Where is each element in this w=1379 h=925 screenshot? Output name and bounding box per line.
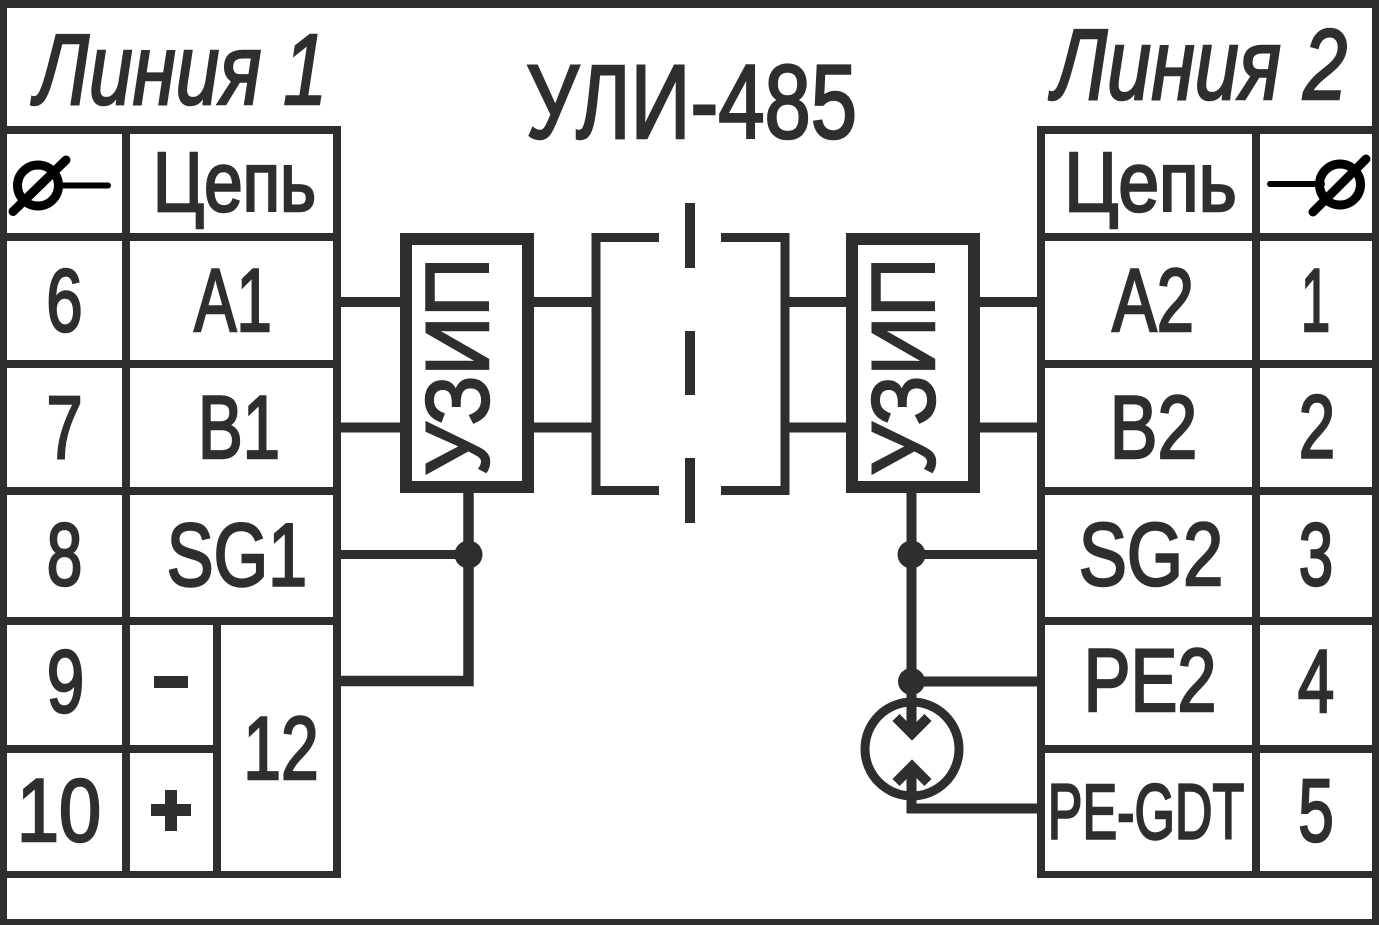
wire УЗИП to A2 bbox=[977, 297, 1041, 307]
surge protector УЗИП right box bbox=[852, 239, 974, 487]
gas discharge tube up arrowhead bbox=[896, 767, 928, 783]
svg-text:A1: A1 bbox=[194, 252, 272, 351]
left terminal table grid bbox=[0, 126, 341, 878]
junction dot right PE2 bbox=[898, 668, 925, 695]
wire break to УЗИП right (B) bbox=[785, 423, 849, 433]
svg-text:4: 4 bbox=[1298, 631, 1334, 731]
svg-text:5: 5 bbox=[1298, 762, 1334, 861]
svg-text:10: 10 bbox=[17, 760, 101, 860]
wire A1 to УЗИП bbox=[337, 297, 403, 307]
wire УЗИП left ground pin down to 12 wire bbox=[337, 490, 469, 681]
wire break to УЗИП right (A) bbox=[785, 297, 849, 307]
svg-text:B1: B1 bbox=[198, 378, 280, 477]
svg-text:2: 2 bbox=[1299, 377, 1335, 477]
right terminal table grid bbox=[1037, 126, 1379, 878]
svg-text:SG2: SG2 bbox=[1079, 506, 1224, 605]
wire УЗИП right ground pin down to arrow bbox=[907, 490, 917, 735]
svg-text:Цепь: Цепь bbox=[153, 136, 316, 230]
wire B1 to УЗИП bbox=[337, 423, 403, 433]
junction dot left SG1 bbox=[455, 541, 483, 569]
svg-text:9: 9 bbox=[47, 631, 85, 731]
svg-text:8: 8 bbox=[47, 506, 83, 605]
wire PE2 bbox=[912, 677, 1042, 687]
svg-text:3: 3 bbox=[1299, 506, 1333, 605]
svg-text:Линия 1: Линия 1 bbox=[31, 15, 327, 126]
wire УЗИП to B2 bbox=[977, 423, 1041, 433]
svg-text:УЗИП: УЗИП bbox=[409, 258, 508, 476]
cable break symbol left bracket bbox=[596, 238, 659, 491]
svg-text:УЗИП: УЗИП bbox=[855, 258, 954, 476]
terminal symbol right bbox=[1270, 159, 1366, 212]
plus sign bbox=[151, 790, 191, 831]
surge protector УЗИП left box bbox=[406, 239, 528, 487]
svg-text:A2: A2 bbox=[1112, 251, 1194, 351]
terminal symbol left bbox=[13, 160, 108, 212]
svg-text:PE2: PE2 bbox=[1084, 630, 1217, 730]
wire УЗИП to break left (A) bbox=[531, 297, 596, 307]
svg-text:7: 7 bbox=[46, 377, 82, 478]
junction dot right SG2 bbox=[898, 541, 926, 569]
minus sign bbox=[154, 676, 188, 688]
cable break dashed line bbox=[685, 203, 695, 523]
wire SG2 bbox=[912, 550, 1042, 559]
wire УЗИП to break left (B) bbox=[531, 423, 596, 433]
svg-text:УЛИ-485: УЛИ-485 bbox=[526, 44, 857, 161]
svg-text:6: 6 bbox=[46, 250, 82, 350]
gas discharge tube circle bbox=[865, 702, 959, 796]
svg-text:1: 1 bbox=[1301, 251, 1330, 351]
gas discharge tube down arrowhead bbox=[896, 718, 928, 734]
wire gas discharge tube to PE-GDT bbox=[912, 766, 1042, 809]
svg-text:B2: B2 bbox=[1110, 379, 1198, 478]
svg-text:SG1: SG1 bbox=[167, 504, 307, 604]
svg-text:PE-GDT: PE-GDT bbox=[1048, 769, 1244, 856]
cable break symbol right bracket bbox=[721, 238, 785, 491]
wire SG1 bbox=[337, 550, 469, 559]
svg-text:Линия 2: Линия 2 bbox=[1048, 9, 1347, 121]
svg-text:12: 12 bbox=[243, 698, 318, 798]
svg-text:Цепь: Цепь bbox=[1064, 135, 1237, 229]
